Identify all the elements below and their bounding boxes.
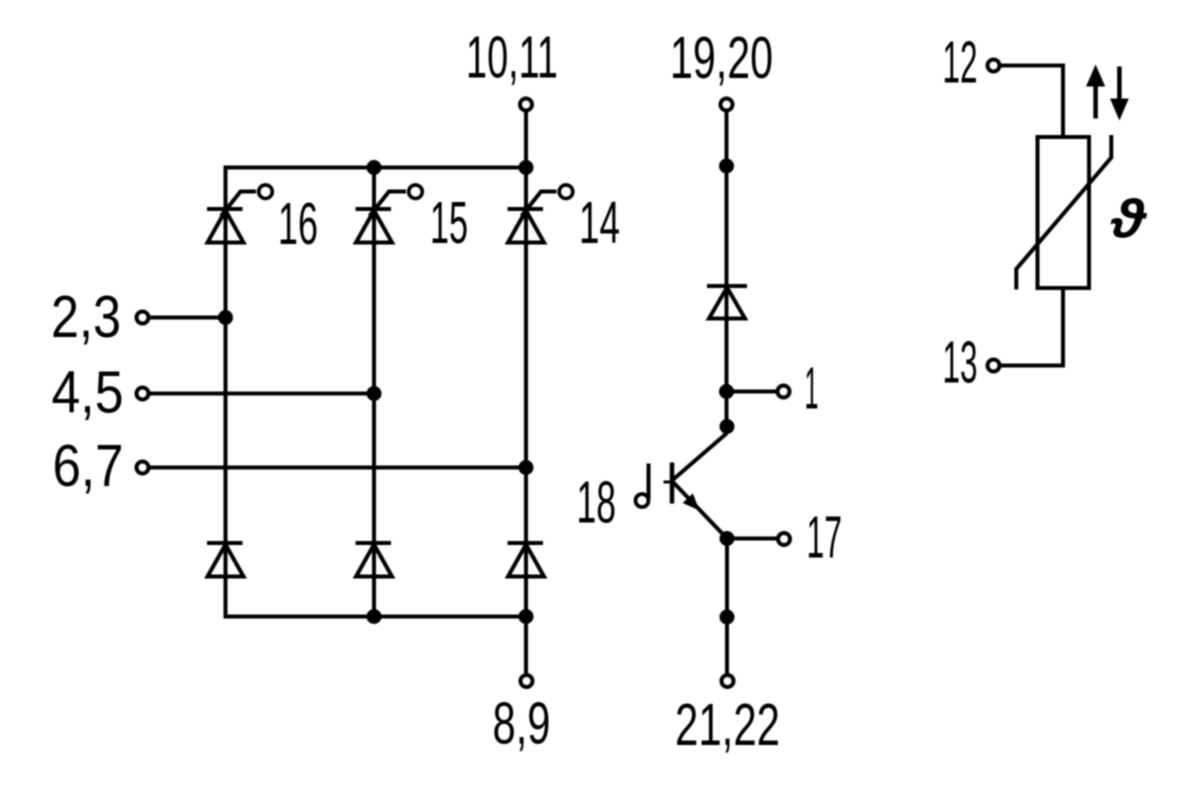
svg-text:18: 18 [577, 470, 617, 536]
diode D3 (bottom right) [508, 543, 545, 577]
svg-text:8,9: 8,9 [493, 691, 551, 757]
wire: terminal 6,7 to branch 3 [150, 466, 526, 470]
wire: middle branch bottom (emitter to 21,22) [725, 539, 729, 674]
diode D7 (middle) [707, 286, 747, 319]
svg-text:ϑ: ϑ [1110, 189, 1147, 249]
thyristor 16 [207, 185, 272, 243]
terminal circle 1 [778, 386, 790, 398]
thermistor R1 body [1038, 137, 1090, 288]
wire: node to terminal 1 [727, 390, 777, 394]
junction dot top bus / branch 2 [367, 160, 382, 175]
wire: middle branch top (19,20 down through diode to collector) [725, 112, 729, 427]
thyristor 15 [356, 185, 423, 243]
wire: bridge branch 1 vertical + top bus [226, 168, 527, 617]
terminal circle 8,9 [521, 675, 533, 687]
junction dot 19,20 [719, 159, 734, 174]
terminal circle 10,11 [520, 99, 532, 111]
wire: bridge branch 3 vertical (terminal 10,11 to terminal 8,9) [524, 112, 528, 673]
wire: terminal 12 to thermistor [1001, 66, 1063, 138]
svg-text:10,11: 10,11 [466, 25, 558, 91]
transistor emitter arrowhead [683, 493, 700, 510]
svg-text:14: 14 [579, 190, 620, 256]
terminal circle 19,20 [721, 99, 733, 111]
wire: terminal 13 to thermistor [1001, 288, 1063, 366]
svg-text:4,5: 4,5 [52, 360, 124, 426]
svg-text:6,7: 6,7 [53, 433, 124, 499]
junction dot top bus / branch 3 [519, 160, 534, 175]
svg-text:12: 12 [943, 30, 978, 96]
junction dot emitter [720, 531, 735, 546]
wire: bridge branch 2 vertical [372, 168, 376, 617]
wire: terminal 4,5 to branch 2 [150, 392, 374, 396]
junction dot bottom bus / branch 2 [367, 609, 382, 624]
arrow up [1086, 65, 1105, 119]
svg-text:17: 17 [807, 505, 843, 571]
terminal circle 4,5 [137, 388, 149, 400]
junction dot branch2/4,5 [367, 386, 382, 401]
wire: terminal 2,3 to branch 1 [150, 316, 226, 320]
junction dot node 1 [719, 384, 734, 399]
junction dot 21,22 [720, 610, 735, 625]
terminal circle 21,22 [722, 675, 734, 687]
diode D1 (bottom left) [207, 543, 244, 577]
junction dot branch3/6,7 [519, 460, 534, 475]
terminal circle 13 [988, 360, 1000, 372]
junction dot collector [720, 419, 735, 434]
junction dot bottom bus / branch 3 [519, 609, 534, 624]
transistor Q1 (NPN) [649, 433, 728, 539]
thyristor 14 [508, 185, 573, 243]
diode D2 (bottom middle) [356, 543, 393, 577]
svg-text:15: 15 [430, 190, 468, 256]
terminal circle 12 [988, 60, 1000, 72]
wire: emitter to terminal 17 [727, 537, 777, 541]
junction dot branch1/2,3 [218, 310, 233, 325]
svg-text:21,22: 21,22 [675, 692, 780, 758]
wire: bridge bottom bus [224, 615, 527, 619]
terminal circle 2,3 [137, 312, 149, 324]
svg-text:1: 1 [805, 356, 819, 422]
terminal circle 18 (base) [636, 494, 649, 507]
svg-text:13: 13 [943, 330, 978, 396]
terminal circle 17 [778, 533, 790, 545]
svg-text:16: 16 [278, 191, 318, 257]
svg-text:2,3: 2,3 [51, 284, 121, 350]
arrow down [1110, 67, 1129, 121]
svg-text:19,20: 19,20 [670, 25, 773, 91]
terminal circle 6,7 [137, 462, 149, 474]
thermistor diagonal stroke [1016, 135, 1111, 290]
